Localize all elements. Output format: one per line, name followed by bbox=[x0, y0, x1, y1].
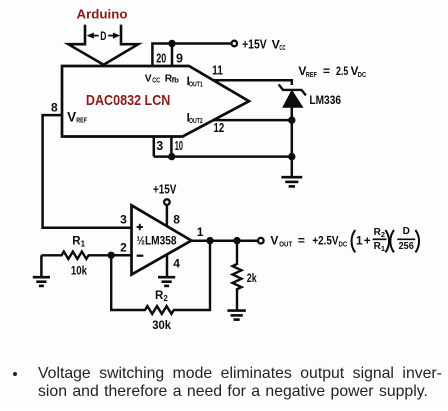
svg-text:8: 8 bbox=[173, 213, 180, 227]
svg-text:10: 10 bbox=[175, 139, 183, 153]
svg-text:1: 1 bbox=[197, 225, 204, 239]
svg-text:12: 12 bbox=[214, 121, 225, 135]
svg-text:Arduino: Arduino bbox=[77, 6, 128, 21]
svg-text:+: + bbox=[364, 233, 371, 247]
svg-text:OUT2: OUT2 bbox=[189, 116, 203, 125]
D bus-width marker bbox=[87, 33, 119, 38]
junction dot (output / R2) bbox=[206, 237, 213, 244]
svg-text:8: 8 bbox=[51, 101, 58, 115]
svg-text:3: 3 bbox=[120, 212, 127, 226]
svg-text:=: = bbox=[298, 233, 305, 247]
svg-text:10k: 10k bbox=[71, 265, 88, 277]
VOUT terminal bbox=[258, 238, 264, 244]
svg-text:DC: DC bbox=[358, 70, 367, 79]
junction dot (output / 2k) bbox=[233, 237, 240, 244]
svg-text:20: 20 bbox=[156, 52, 166, 66]
svg-text:+2.5V: +2.5V bbox=[312, 233, 338, 247]
svg-text:LM336: LM336 bbox=[309, 93, 341, 107]
svg-text:9: 9 bbox=[176, 52, 183, 66]
op-amp + input marker bbox=[137, 224, 143, 230]
svg-text:4: 4 bbox=[173, 257, 180, 271]
R1 left wire to ground bbox=[40, 255, 43, 277]
junction dot (ground bus / LM336) bbox=[288, 153, 295, 160]
svg-text:CC: CC bbox=[279, 43, 286, 52]
svg-text:D: D bbox=[403, 226, 410, 237]
junction dot (pin 10 / ground bus) bbox=[168, 153, 175, 160]
op-amp U2 1/2 LM358 triangle bbox=[132, 205, 192, 274]
Arduino data-bus arrow bbox=[68, 25, 138, 65]
IOUT2 wire (pin 12) bbox=[213, 119, 291, 122]
svg-text:2k: 2k bbox=[247, 271, 257, 285]
pin 10 wire (DAC bottom) bbox=[170, 137, 173, 157]
junction dot (rail / pin 9) bbox=[168, 40, 175, 47]
svg-text:D: D bbox=[100, 31, 106, 43]
svg-text:256: 256 bbox=[399, 241, 415, 252]
DAC0832 U1 outline bbox=[62, 66, 249, 137]
svg-text:11: 11 bbox=[212, 64, 223, 78]
IOUT1 wire (pin 11) to LM336 cathode bbox=[213, 80, 291, 85]
svg-text:CC: CC bbox=[152, 78, 160, 85]
op-amp - input marker bbox=[137, 255, 144, 257]
op-amp pin 4 wire bbox=[166, 256, 169, 278]
svg-text:REF: REF bbox=[76, 116, 87, 125]
pin 3 wire (DAC bottom) bbox=[153, 137, 156, 157]
svg-text:=: = bbox=[323, 64, 330, 78]
pin 9 wire bbox=[171, 44, 174, 66]
svg-text:2.5: 2.5 bbox=[336, 64, 348, 78]
caption line 2 bbox=[38, 383, 428, 401]
resistor R2 feedback loop bbox=[111, 241, 210, 314]
svg-text:fb: fb bbox=[172, 76, 180, 85]
zener diode LM336 cathode bar bbox=[279, 84, 306, 95]
svg-text:30k: 30k bbox=[152, 320, 171, 332]
svg-text:DAC0832 LCN: DAC0832 LCN bbox=[86, 92, 170, 109]
svg-text:REF: REF bbox=[306, 70, 318, 79]
svg-text:V: V bbox=[67, 110, 76, 125]
ground (op-amp pin 4) bbox=[158, 277, 175, 286]
op-amp pin 8 wire bbox=[166, 205, 169, 226]
ground (LM336) bbox=[281, 177, 302, 186]
pin 8 / VREF wire to op-amp pin 3 bbox=[43, 115, 132, 228]
zener diode LM336 triangle bbox=[283, 91, 303, 108]
svg-text:½LM358: ½LM358 bbox=[137, 233, 177, 247]
resistor 2k bbox=[233, 241, 242, 311]
+15V VCC terminal bbox=[232, 41, 238, 47]
svg-text:DC: DC bbox=[339, 239, 348, 248]
svg-text:+15V: +15V bbox=[242, 37, 267, 51]
close paren 2 bbox=[415, 230, 419, 252]
LM336 anode wire down to ground bbox=[291, 106, 294, 177]
op-amp output wire (pin 1) bbox=[191, 240, 257, 243]
+15V VCC supply rail wire bbox=[152, 44, 231, 66]
caption line 1 bbox=[38, 365, 442, 383]
junction dot (IOUT2 / LM336 anode) bbox=[288, 116, 295, 123]
svg-text:V: V bbox=[270, 233, 278, 247]
op-amp pin 2 wire bbox=[111, 254, 131, 257]
VOUT formula bbox=[270, 226, 419, 253]
open paren 1 bbox=[352, 230, 356, 252]
ground (2k) bbox=[227, 311, 245, 320]
close paren / open paren bbox=[385, 230, 389, 252]
svg-text:1: 1 bbox=[356, 233, 363, 247]
svg-text:+15V: +15V bbox=[153, 182, 177, 196]
svg-text:3: 3 bbox=[156, 139, 163, 153]
bullet point bbox=[13, 372, 17, 376]
junction dot (R1 / pin 2 / R2) bbox=[108, 252, 115, 259]
svg-text:V: V bbox=[145, 74, 152, 85]
resistor R1 bbox=[41, 252, 111, 259]
svg-text:OUT1: OUT1 bbox=[189, 80, 203, 89]
op-amp +15V terminal bbox=[164, 199, 170, 205]
ground (R1) bbox=[33, 277, 50, 286]
ground bus wire (pins 3,10 to LM336 node) bbox=[154, 155, 292, 158]
svg-text:2: 2 bbox=[120, 241, 127, 255]
svg-text:OUT: OUT bbox=[279, 239, 292, 248]
